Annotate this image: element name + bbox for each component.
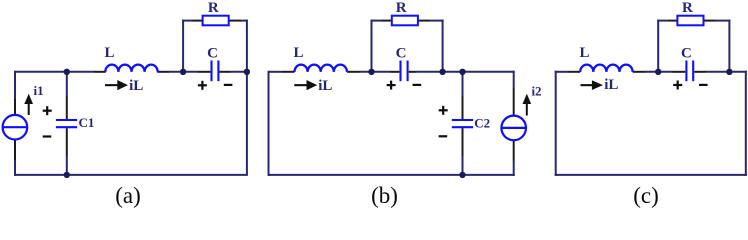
pin inductor L right (b) xyxy=(347,71,360,73)
node (a) C1 bottom junction xyxy=(64,172,70,178)
svg-text:(c): (c) xyxy=(633,183,659,208)
pin resistor R left (c) xyxy=(667,20,677,22)
resistor R (c) xyxy=(677,16,703,26)
pin resistor R left (b) xyxy=(382,20,392,22)
label minus C (c) xyxy=(699,84,708,86)
arrow iL (a) xyxy=(105,80,128,90)
svg-text:iL: iL xyxy=(318,78,332,94)
wire (c) top left segment xyxy=(555,71,568,73)
current source i2 xyxy=(501,116,526,141)
wire (a) top right segment xyxy=(231,71,248,73)
wire (c) R-branch right vertical xyxy=(728,20,730,72)
label minus C1 xyxy=(43,135,52,137)
wire (a) C1-branch upper xyxy=(66,71,68,96)
svg-text:C: C xyxy=(207,45,218,61)
pin capacitor C left (a) xyxy=(199,71,211,73)
wire (c) right vertical xyxy=(745,71,747,176)
wire (b) R-branch left vertical xyxy=(371,20,373,72)
capacitor C1 plates xyxy=(56,119,77,121)
svg-text:L: L xyxy=(579,45,589,61)
arrow i2 xyxy=(523,94,532,116)
pin capacitor C left (c) xyxy=(673,71,686,73)
wire (a) top left segment xyxy=(14,71,94,73)
wire (b) source branch lower xyxy=(513,161,515,176)
inductor L (b) xyxy=(295,65,347,72)
pin source i1 top xyxy=(14,99,16,115)
wire (c) R-branch top left xyxy=(657,20,667,22)
resistor R (b) xyxy=(392,16,418,26)
label plus C (b) xyxy=(387,81,396,90)
inductor L (c) xyxy=(580,65,632,72)
label plus C2 xyxy=(439,106,448,115)
wire (a) R-branch top left xyxy=(182,20,192,22)
label minus C2 xyxy=(439,135,448,137)
pin source i2 bottom xyxy=(513,140,515,160)
current source i1 xyxy=(3,115,28,140)
pin resistor R right (c) xyxy=(704,20,716,22)
wire (b) C2-branch upper xyxy=(462,71,464,96)
pin capacitor C1 top xyxy=(66,96,68,119)
resistor R (a) xyxy=(203,16,229,26)
wire (a) left vertical lower xyxy=(14,160,16,176)
label minus C (a) xyxy=(224,84,233,86)
wire (a) left vertical upper xyxy=(14,71,16,99)
label plus C1 xyxy=(43,106,52,115)
svg-text:i1: i1 xyxy=(34,83,44,98)
capacitor C plates (b) xyxy=(399,61,401,82)
pin source i2 top xyxy=(513,88,515,116)
pin capacitor C right (a) xyxy=(220,71,231,73)
wire (b) R-branch top right xyxy=(430,20,443,22)
svg-text:C1: C1 xyxy=(78,115,94,130)
pin inductor L right (a) xyxy=(157,71,169,73)
wire (b) C2-branch lower xyxy=(462,156,464,175)
pin capacitor C left (b) xyxy=(391,71,400,73)
svg-text:i2: i2 xyxy=(531,83,541,98)
pin resistor R right (b) xyxy=(418,20,430,22)
node (a) L-R junction xyxy=(180,69,186,75)
svg-text:L: L xyxy=(293,45,303,61)
wire (b) top middle segment xyxy=(360,71,391,73)
wire (b) bottom xyxy=(268,174,515,176)
wire (c) top right segment xyxy=(706,71,747,73)
label minus C (b) xyxy=(413,84,422,86)
svg-text:R: R xyxy=(396,0,407,16)
svg-text:C: C xyxy=(681,45,692,61)
node (c) R right junction xyxy=(726,69,732,75)
wire (a) bottom xyxy=(14,174,248,176)
wire (a) R-branch right vertical xyxy=(246,20,248,72)
wire (a) top middle segment xyxy=(169,71,199,73)
node (b) L-R junction xyxy=(368,69,374,75)
wire (b) R-branch right vertical xyxy=(442,20,444,72)
node (b) C2 bottom junction xyxy=(459,172,465,178)
pin inductor L right (c) xyxy=(633,71,645,73)
svg-text:(a): (a) xyxy=(115,183,141,208)
node (c) L-R junction xyxy=(655,69,661,75)
pin source i1 bottom xyxy=(14,139,16,160)
wire (c) R-branch left vertical xyxy=(657,20,659,72)
wire (a) R-branch top right xyxy=(241,20,248,22)
arrow iL (c) xyxy=(581,80,603,90)
inductor L (a) xyxy=(105,65,157,72)
wire (a) R-branch left vertical xyxy=(182,20,184,72)
pin inductor L left (c) xyxy=(568,71,580,73)
wire (c) top middle segment xyxy=(645,71,673,73)
node (b) R right junction xyxy=(439,69,445,75)
wire (a) right vertical xyxy=(246,71,248,175)
wire (a) C1-branch lower xyxy=(66,156,68,175)
node (b) C2 top junction xyxy=(459,69,465,75)
svg-text:R: R xyxy=(682,0,693,16)
svg-text:iL: iL xyxy=(604,77,618,93)
pin capacitor C1 bottom xyxy=(66,128,68,156)
wire (c) R-branch top right xyxy=(716,20,731,22)
node (a) C1 top junction xyxy=(64,69,70,75)
pin capacitor C right (c) xyxy=(694,71,706,73)
wire (b) R-branch top left xyxy=(371,20,382,22)
svg-text:R: R xyxy=(208,0,219,16)
svg-text:C: C xyxy=(396,45,407,61)
pin resistor R left (a) xyxy=(193,20,203,22)
label plus C (c) xyxy=(673,81,682,90)
svg-text:C2: C2 xyxy=(474,115,490,130)
arrow i1 xyxy=(24,94,33,115)
wire (c) bottom xyxy=(555,174,747,176)
wire (b) top left segment xyxy=(268,71,282,73)
svg-text:L: L xyxy=(104,45,114,61)
wire (b) top right segment xyxy=(417,71,515,73)
label plus C (a) xyxy=(198,81,207,90)
node (a) right junction xyxy=(244,69,250,75)
capacitor C2 plates xyxy=(452,119,473,121)
pin resistor R right (a) xyxy=(229,20,241,22)
wire (b) source branch upper xyxy=(513,71,515,88)
wire (b) left vertical xyxy=(268,71,270,176)
pin capacitor C right (b) xyxy=(409,71,417,73)
pin inductor L left (b) xyxy=(282,71,295,73)
wire (c) left vertical xyxy=(555,71,557,176)
svg-text:(b): (b) xyxy=(371,183,398,208)
svg-text:iL: iL xyxy=(129,78,143,94)
arrow iL (b) xyxy=(294,80,317,90)
capacitor C plates (a) xyxy=(210,61,212,82)
pin capacitor C2 bottom xyxy=(462,128,464,156)
pin capacitor C2 top xyxy=(462,96,464,119)
capacitor C plates (c) xyxy=(685,61,687,82)
pin inductor L left (a) xyxy=(94,71,106,73)
